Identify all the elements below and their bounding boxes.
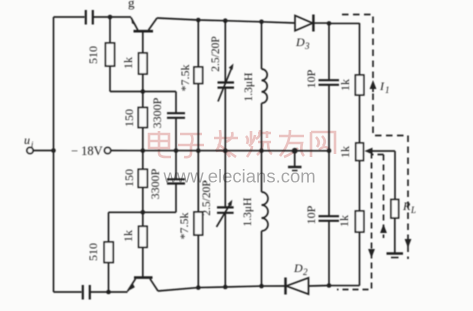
wire dashed inner loop <box>337 155 384 290</box>
node row dot (top) <box>141 89 146 94</box>
wire top rail right <box>157 18 295 23</box>
svg-text:10P: 10P <box>304 205 318 224</box>
svg-text:D: D <box>295 35 305 49</box>
svg-text:g: g <box>128 0 135 10</box>
wire D2 to corner <box>309 285 330 288</box>
svg-text:150: 150 <box>122 109 136 127</box>
烧 <box>246 130 272 157</box>
resistor 1k (right bottom) <box>337 161 364 286</box>
resistor *7.5k (bottom) <box>177 151 203 288</box>
svg-text:510: 510 <box>86 243 100 261</box>
node u_i rail dot <box>51 148 56 153</box>
ground under RL <box>387 254 404 258</box>
svg-text:1: 1 <box>385 85 390 95</box>
svg-text:*7.5k: *7.5k <box>178 65 192 92</box>
node dot after D3 <box>327 21 332 26</box>
svg-text:1k: 1k <box>337 215 351 227</box>
svg-text:3300P: 3300P <box>148 168 162 199</box>
svg-text:www.elecians.com: www.elecians.com <box>163 165 316 186</box>
wire bottom input segment <box>54 291 82 293</box>
diode D2 <box>286 261 309 295</box>
capacitor 3300P (top) <box>150 92 185 151</box>
capacitor 2.5/20P variable (top) <box>210 21 234 151</box>
transistor Q2 (bottom) <box>128 278 159 292</box>
capacitor input coupling (top) <box>86 10 131 25</box>
wire left rail <box>53 17 55 292</box>
svg-text:1k: 1k <box>121 57 135 69</box>
arrow outer loop down <box>405 239 412 248</box>
capacitor 10P (bottom) <box>304 151 339 286</box>
capacitor 2.5/20P variable (bottom) <box>201 151 234 287</box>
友 <box>279 130 304 157</box>
resistor 510 (top) <box>86 17 115 92</box>
wire junction row (top) <box>110 91 176 93</box>
arrow inner loop up <box>380 224 387 233</box>
resistor 510 (bottom) <box>86 212 113 292</box>
svg-text:− 18V: − 18V <box>71 144 103 158</box>
potentiometer 1k (right middle) <box>338 143 395 161</box>
node top rail dots <box>196 18 264 24</box>
svg-text:L: L <box>410 205 416 215</box>
svg-text:1k: 1k <box>121 230 135 242</box>
svg-text:510: 510 <box>86 46 100 64</box>
svg-text:*7.5k: *7.5k <box>177 213 191 240</box>
ground middle rail <box>288 151 302 171</box>
子 <box>178 134 204 157</box>
watermark red text (drawn CJK-like glyphs) <box>149 130 335 157</box>
wire middle rail <box>111 150 329 152</box>
capacitor input coupling (bottom) <box>83 285 128 300</box>
发 <box>214 130 238 157</box>
svg-text:D: D <box>293 261 303 275</box>
resistor 1k (bottom base) <box>121 212 147 277</box>
terminal -18V <box>71 144 111 158</box>
svg-text:i: i <box>31 139 34 149</box>
wire bottom rail right <box>158 286 286 291</box>
resistor 150 (bottom) <box>122 151 147 213</box>
capacitor 3300P (bottom) <box>148 151 185 213</box>
svg-text:3300P: 3300P <box>150 97 164 128</box>
node dot right of D2 <box>327 283 332 288</box>
arrow I1 up <box>370 79 390 95</box>
wire junction row (bottom) <box>109 211 177 213</box>
node junction top input <box>108 15 113 20</box>
svg-text:R: R <box>402 199 411 213</box>
node middle rail dots <box>141 148 332 154</box>
resistor 1k (top base) <box>121 53 147 92</box>
node bottom rail dots <box>196 284 264 290</box>
watermark url text <box>163 165 317 187</box>
inductor 1.3uH (top) <box>243 22 267 151</box>
svg-text:10P: 10P <box>304 69 318 88</box>
node row dot (bottom) <box>141 210 146 215</box>
inductor 1.3uH (bottom) <box>242 151 268 286</box>
resistor *7.5k (top) <box>178 20 203 151</box>
svg-text:1.3μH: 1.3μH <box>242 198 254 227</box>
网 <box>311 132 335 157</box>
wire D3 to right column <box>313 22 359 24</box>
capacitor 10P (top) <box>304 23 339 150</box>
diode D3 <box>295 15 313 52</box>
svg-text:3: 3 <box>304 41 310 51</box>
svg-text:1k: 1k <box>338 79 352 91</box>
电 <box>149 131 171 157</box>
svg-text:2: 2 <box>303 267 308 277</box>
resistor 1k (right top) <box>338 23 364 143</box>
svg-text:2.5/20P: 2.5/20P <box>201 180 213 215</box>
label g (top partial) <box>128 0 135 10</box>
wire bottom right corner <box>329 285 360 287</box>
wire top input segment <box>54 16 85 18</box>
arrow inner loop down <box>368 249 375 258</box>
wire dashed outer loop I1 <box>342 15 408 260</box>
resistor 150 (top) <box>122 92 147 151</box>
resistor RL <box>391 151 416 253</box>
svg-text:1k: 1k <box>338 146 352 158</box>
svg-text:150: 150 <box>122 169 136 187</box>
svg-text:2.5/20P: 2.5/20P <box>210 36 222 71</box>
svg-text:1.3μH: 1.3μH <box>243 73 255 102</box>
node junction bottom input <box>106 290 111 295</box>
terminal u_i <box>24 133 54 154</box>
svg-text:u: u <box>24 133 30 147</box>
transistor Q1 (PNP, top) <box>131 18 157 54</box>
